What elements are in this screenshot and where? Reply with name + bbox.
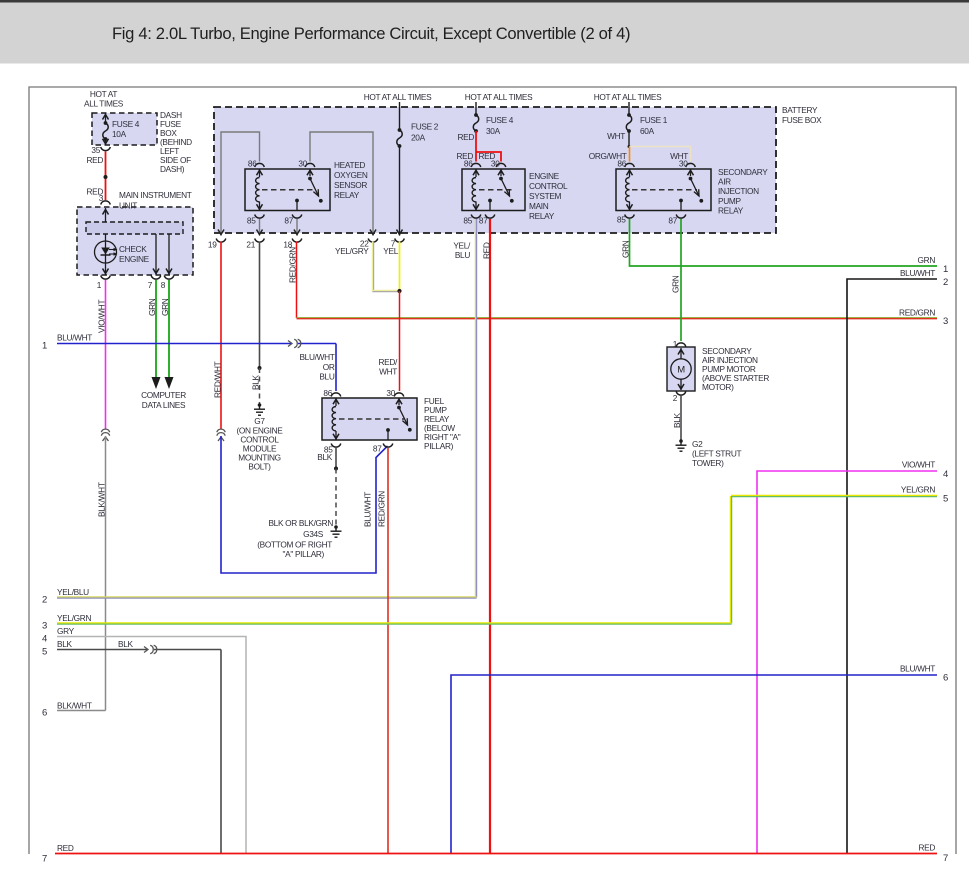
- svg-text:5: 5: [943, 494, 948, 505]
- pin 87 of heated oxygen sensor relay: [284, 215, 301, 226]
- inline connector on BLK wire 5: [144, 645, 157, 653]
- label BATTERY FUSE BOX: [782, 105, 822, 125]
- pin 8 of main instrument unit: [161, 276, 174, 291]
- pin 2 of air pump motor: [673, 392, 686, 404]
- wire GRY left edge 4: [42, 626, 246, 853]
- wire YEL from connector 7 (fuse 2): [383, 242, 399, 292]
- pin 1 of main instrument unit: [97, 276, 111, 291]
- svg-text:"A" PILLAR): "A" PILLAR): [283, 549, 325, 559]
- svg-text:WHT: WHT: [379, 367, 397, 377]
- fuse F4 10A in dash fuse box: [92, 113, 157, 145]
- svg-text:86: 86: [617, 159, 626, 169]
- svg-text:GRN: GRN: [918, 255, 936, 265]
- pin 85 of heated oxygen sensor relay: [247, 215, 264, 226]
- svg-text:UNIT: UNIT: [119, 201, 137, 211]
- svg-text:19: 19: [208, 240, 217, 250]
- wire RED from fuse 4 30A to engine control relay: [456, 131, 501, 162]
- svg-text:RED: RED: [482, 242, 492, 259]
- wire VIO/WHT from pin 1: [97, 280, 107, 429]
- svg-text:GRN: GRN: [671, 275, 681, 293]
- svg-text:RELAY: RELAY: [334, 190, 360, 200]
- svg-text:FUSE 4: FUSE 4: [112, 119, 140, 129]
- wire BLU/WHT right edge 6: [451, 664, 948, 854]
- wire inside main instrument unit to connector strip: [103, 208, 109, 222]
- svg-text:RED/WHT: RED/WHT: [213, 361, 223, 398]
- wire RED/GRN from fuel pump relay 87 to bottom: [363, 448, 389, 853]
- svg-text:87: 87: [373, 444, 382, 454]
- wire BLK from motor to ground G2: [672, 396, 682, 440]
- pin 35 of dash fuse box: [91, 145, 110, 155]
- label MAIN INSTRUMENT UNIT: [119, 190, 192, 211]
- svg-text:5: 5: [42, 647, 47, 658]
- svg-text:RED: RED: [57, 843, 74, 853]
- svg-text:CONTROL: CONTROL: [529, 181, 568, 191]
- pin 7 of main instrument unit: [148, 276, 161, 291]
- svg-text:1: 1: [97, 280, 102, 290]
- wire YEL/BLU from engine control relay 85 to left edge 2: [42, 219, 477, 606]
- relay K2 engine control system main relay: [462, 169, 525, 211]
- relay K4 fuel pump relay: [322, 398, 417, 440]
- svg-text:PILLAR): PILLAR): [424, 441, 454, 451]
- svg-text:BLK/WHT: BLK/WHT: [97, 482, 107, 517]
- svg-text:4: 4: [42, 634, 47, 645]
- wire BLK/WHT to left edge 6: [42, 436, 106, 719]
- svg-text:ENGINE: ENGINE: [119, 254, 150, 264]
- label ENGINE CONTROL SYSTEM MAIN RELAY: [529, 171, 568, 221]
- svg-text:3: 3: [943, 316, 948, 327]
- svg-text:30: 30: [386, 388, 395, 398]
- svg-text:OXYGEN: OXYGEN: [334, 170, 368, 180]
- pin 85 of fuel pump relay: [324, 444, 341, 455]
- svg-text:BLU/WHT: BLU/WHT: [900, 664, 935, 674]
- pin 30 of fuel pump relay: [386, 388, 403, 398]
- svg-text:6: 6: [943, 673, 948, 684]
- pin 87 of secondary air relay: [668, 215, 685, 226]
- wire YEL/GRN right edge 5 to left edge 3: [42, 485, 948, 632]
- svg-text:BLU: BLU: [455, 250, 470, 260]
- label HEATED OXYGEN SENSOR RELAY: [334, 160, 368, 200]
- svg-text:4: 4: [943, 469, 948, 480]
- svg-text:SYSTEM: SYSTEM: [529, 191, 562, 201]
- label SECONDARY AIR INJECTION PUMP MOTOR (ABOVE STARTER MOTOR): [702, 346, 769, 392]
- svg-text:VIO/WHT: VIO/WHT: [97, 300, 107, 333]
- svg-text:BOLT): BOLT): [248, 462, 271, 472]
- svg-text:ENGINE: ENGINE: [529, 171, 560, 181]
- title bar: [0, 0, 969, 64]
- relay K3 secondary air injection pump relay: [616, 169, 711, 211]
- wire BLK from connector 21 to ground G7: [251, 242, 262, 405]
- svg-text:FUSE 2: FUSE 2: [411, 122, 439, 132]
- label DASH FUSE BOX (BEHIND LEFT SIDE OF DASH): [160, 110, 192, 174]
- main instrument unit box: [77, 207, 193, 275]
- svg-text:BLK: BLK: [57, 639, 72, 649]
- indicator lamp CHECK ENGINE: [95, 234, 150, 275]
- svg-text:WHT: WHT: [607, 131, 625, 141]
- svg-text:FUSE 4: FUSE 4: [486, 115, 514, 125]
- svg-text:87: 87: [668, 216, 677, 226]
- svg-text:86: 86: [323, 388, 332, 398]
- svg-text:2: 2: [673, 393, 678, 403]
- svg-text:RELAY: RELAY: [718, 205, 744, 215]
- svg-text:MAIN INSTRUMENT: MAIN INSTRUMENT: [119, 190, 192, 200]
- wire YEL/GRY from connector 22: [335, 242, 400, 292]
- svg-text:FUSE 1: FUSE 1: [640, 115, 668, 125]
- pin 86 of engine control relay: [464, 159, 481, 169]
- svg-text:INJECTION: INJECTION: [718, 186, 759, 196]
- wire GRN from pin 7 (computer data line): [147, 280, 161, 389]
- svg-text:GRN: GRN: [160, 298, 170, 316]
- svg-text:SECONDARY: SECONDARY: [718, 167, 768, 177]
- wire from relay 86 to connector 19 (inside fuse box): [218, 132, 260, 236]
- svg-text:PUMP: PUMP: [718, 196, 741, 206]
- svg-text:BLK: BLK: [251, 375, 261, 390]
- ground G2: [676, 439, 742, 468]
- svg-text:RED/: RED/: [378, 357, 398, 367]
- svg-text:MAIN: MAIN: [529, 201, 549, 211]
- wire RED/GRN from connector 18 to right edge 3: [288, 242, 949, 328]
- svg-text:HOT AT ALL TIMES: HOT AT ALL TIMES: [594, 92, 662, 102]
- svg-text:G34S: G34S: [303, 529, 324, 539]
- svg-text:6: 6: [42, 708, 47, 719]
- connector 7 of battery fuse box: [391, 239, 405, 249]
- svg-text:RELAY: RELAY: [529, 211, 555, 221]
- connector strip inside main instrument unit: [86, 222, 183, 234]
- svg-text:21: 21: [246, 240, 255, 250]
- inline connector on RED/WHT wire: [217, 429, 225, 441]
- wire GRN from pin 8 (computer data line): [160, 280, 174, 389]
- svg-text:DASH): DASH): [160, 164, 185, 174]
- svg-text:YEL/GRY: YEL/GRY: [335, 246, 369, 256]
- svg-text:GRN: GRN: [147, 298, 157, 316]
- svg-text:BLU/WHT: BLU/WHT: [363, 492, 373, 527]
- motor M1 secondary air injection pump motor: [667, 347, 695, 391]
- svg-text:HEATED: HEATED: [334, 160, 365, 170]
- wire RED/WHT from connector 19: [213, 242, 223, 430]
- svg-text:30: 30: [491, 159, 500, 169]
- wire BLK left edge 5: [42, 639, 221, 853]
- svg-text:DATA LINES: DATA LINES: [142, 400, 186, 410]
- svg-text:8: 8: [161, 280, 166, 290]
- svg-text:RED: RED: [86, 155, 103, 165]
- wire from fuse 2 to connector 7: [397, 146, 403, 236]
- svg-text:35: 35: [91, 145, 100, 155]
- svg-text:3: 3: [42, 621, 47, 632]
- svg-text:HOT AT: HOT AT: [90, 89, 117, 99]
- wire pin8 inside main instrument unit: [166, 234, 172, 275]
- svg-text:87: 87: [479, 216, 488, 226]
- label COMPUTER DATA LINES: [141, 390, 186, 410]
- svg-text:M: M: [677, 365, 685, 376]
- svg-text:OR: OR: [323, 362, 335, 372]
- svg-text:ALL TIMES: ALL TIMES: [84, 99, 124, 109]
- svg-text:30A: 30A: [486, 126, 501, 136]
- svg-text:7: 7: [148, 280, 153, 290]
- wire from relay 87 to connector 18: [294, 219, 300, 236]
- svg-text:85: 85: [463, 216, 472, 226]
- svg-text:87: 87: [284, 216, 293, 226]
- svg-text:2: 2: [42, 595, 47, 606]
- svg-text:60A: 60A: [640, 126, 655, 136]
- wire BLK from fuel pump relay 85 to ground G34S: [268, 448, 338, 528]
- svg-text:MOTOR): MOTOR): [702, 382, 734, 392]
- svg-text:TOWER): TOWER): [692, 458, 724, 468]
- svg-text:7: 7: [943, 853, 948, 864]
- svg-text:86: 86: [248, 159, 257, 169]
- pin 86 of heated oxygen sensor relay: [248, 159, 264, 169]
- svg-text:COMPUTER: COMPUTER: [141, 390, 186, 400]
- ground G7: [236, 403, 283, 471]
- svg-text:(BOTTOM OF RIGHT: (BOTTOM OF RIGHT: [257, 540, 332, 550]
- wire RED from engine control relay 87 to bottom: [482, 219, 492, 853]
- svg-text:YEL/GRN: YEL/GRN: [901, 485, 935, 495]
- wire GRN from secondary air relay 87 to pump motor: [671, 219, 682, 341]
- fuse F1 60A: [607, 102, 668, 148]
- svg-text:CHECK: CHECK: [119, 244, 147, 254]
- svg-text:YEL/BLU: YEL/BLU: [57, 587, 89, 597]
- pin 1 of air pump motor: [673, 339, 686, 349]
- connector 18 of battery fuse box: [283, 239, 301, 250]
- wire RED from fuse 4 to main instrument unit: [86, 152, 107, 204]
- pin 3 of main instrument unit: [101, 201, 111, 205]
- svg-text:1: 1: [42, 341, 47, 352]
- svg-text:YEL: YEL: [383, 246, 398, 256]
- svg-text:BLU: BLU: [319, 372, 334, 382]
- wire BLU to fuel pump relay 87: [221, 436, 388, 573]
- inline connector on BLU/WHT wire 1: [288, 339, 301, 347]
- pin 85 of engine control relay: [463, 215, 480, 226]
- pin 87 of fuel pump relay: [373, 444, 393, 454]
- wire GRN from secondary air relay 85 to right edge 1: [621, 219, 949, 275]
- wire WHT to secondary air relay 30: [630, 147, 691, 162]
- wire RED/WHT to fuel pump relay 30: [378, 291, 399, 391]
- svg-text:BLU/WHT: BLU/WHT: [900, 268, 935, 278]
- connector 21 of battery fuse box: [246, 239, 264, 250]
- svg-text:BLK: BLK: [118, 639, 133, 649]
- svg-text:RED/GRN: RED/GRN: [899, 308, 935, 318]
- wire ORG/WHT to secondary air relay 86: [589, 147, 630, 162]
- svg-text:GRY: GRY: [57, 626, 75, 636]
- battery fuse box (dashed): [214, 107, 776, 233]
- svg-text:G7: G7: [254, 416, 265, 426]
- svg-text:86: 86: [464, 159, 473, 169]
- svg-text:RED: RED: [457, 132, 474, 142]
- pin 30 of heated oxygen sensor relay: [298, 159, 314, 169]
- svg-text:BLK: BLK: [317, 452, 332, 462]
- svg-text:G2: G2: [692, 439, 703, 449]
- pin 86 of fuel pump relay: [323, 388, 340, 398]
- connector 22 of battery fuse box: [360, 239, 378, 249]
- pin 86 of secondary air relay: [617, 159, 634, 169]
- power label HOT AT ALL TIMES (dash fuse box): [84, 89, 124, 109]
- svg-text:BLK/WHT: BLK/WHT: [57, 701, 92, 711]
- svg-text:HOT AT ALL TIMES: HOT AT ALL TIMES: [364, 92, 432, 102]
- fuse F4 30A: [473, 102, 513, 136]
- svg-text:HOT AT ALL TIMES: HOT AT ALL TIMES: [465, 92, 533, 102]
- svg-text:BLK: BLK: [672, 413, 682, 428]
- svg-text:RED/GRN: RED/GRN: [288, 247, 298, 283]
- svg-text:RED/GRN: RED/GRN: [377, 491, 387, 527]
- wire pin7 inside main instrument unit: [153, 234, 159, 275]
- pin 87 of engine control relay: [479, 215, 495, 226]
- svg-text:FUSE BOX: FUSE BOX: [782, 115, 822, 125]
- wire VIO/WHT right edge 4: [757, 460, 948, 854]
- svg-text:AIR: AIR: [718, 177, 731, 187]
- inline connector on VIO/WHT wire: [101, 429, 109, 441]
- wire BLU/WHT from left edge 1 to fuel pump relay 86: [42, 333, 336, 392]
- wire RED bottom edge 7: [42, 843, 948, 865]
- pin 30 of secondary air relay: [679, 159, 695, 169]
- svg-text:YEL/GRN: YEL/GRN: [57, 613, 91, 623]
- svg-text:BLU/WHT: BLU/WHT: [299, 352, 334, 362]
- wire from relay 30 to connector 22 (inside fuse box): [310, 132, 376, 236]
- svg-text:SENSOR: SENSOR: [334, 180, 367, 190]
- svg-text:GRN: GRN: [621, 240, 631, 258]
- svg-text:BLU/WHT: BLU/WHT: [57, 333, 92, 343]
- svg-text:30: 30: [298, 159, 307, 169]
- svg-text:30: 30: [679, 159, 688, 169]
- svg-text:RED: RED: [918, 843, 935, 853]
- svg-text:BLK OR BLK/GRN: BLK OR BLK/GRN: [268, 518, 333, 528]
- relay K1 heated oxygen sensor relay: [245, 169, 330, 211]
- svg-text:VIO/WHT: VIO/WHT: [902, 460, 935, 470]
- svg-text:(LEFT STRUT: (LEFT STRUT: [692, 449, 741, 459]
- svg-text:10A: 10A: [112, 129, 127, 139]
- svg-text:YEL/: YEL/: [453, 241, 471, 251]
- svg-text:2: 2: [943, 277, 948, 288]
- pin 30 of engine control relay: [491, 159, 506, 169]
- svg-text:1: 1: [943, 264, 948, 275]
- svg-text:7: 7: [42, 854, 47, 865]
- label FUEL PUMP RELAY (BELOW RIGHT A PILLAR): [424, 396, 461, 451]
- wire BLU/WHT right edge 2: [847, 268, 948, 853]
- svg-text:BATTERY: BATTERY: [782, 105, 818, 115]
- pin 85 of secondary air relay: [617, 215, 634, 225]
- junction of YEL and YEL/GRY: [397, 289, 401, 293]
- svg-text:85: 85: [617, 215, 626, 225]
- svg-text:20A: 20A: [411, 133, 426, 143]
- svg-text:Fig 4: 2.0L Turbo, Engine Perf: Fig 4: 2.0L Turbo, Engine Performance Ci…: [112, 24, 630, 43]
- fuse F2 20A: [397, 102, 439, 148]
- wire from relay 85 to connector 21: [257, 219, 263, 236]
- connector 19 of battery fuse box: [208, 239, 226, 250]
- ground G34S: [257, 525, 341, 559]
- svg-text:85: 85: [247, 216, 256, 226]
- label SECONDARY AIR INJECTION PUMP RELAY: [718, 167, 768, 215]
